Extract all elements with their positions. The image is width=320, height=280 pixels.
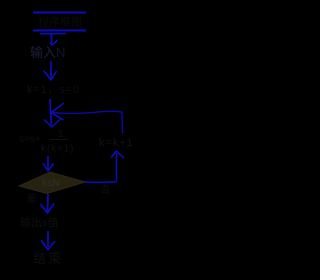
wire decision to output: [47, 194, 50, 211]
arrowhead into end: [41, 241, 55, 250]
svg-text:k=k+1: k=k+1: [99, 137, 133, 149]
input node text 输入N: [30, 45, 65, 60]
formula fraction bar: [50, 139, 69, 141]
svg-text:是: 是: [27, 194, 36, 204]
label yes 是: [27, 194, 36, 204]
wire formula to decision: [47, 156, 49, 169]
svg-text:输出s值: 输出s值: [20, 215, 59, 229]
no-branch horizontal wire from decision: [84, 181, 117, 184]
wire init to junction: [50, 99, 52, 125]
svg-text:1: 1: [58, 129, 64, 140]
start terminator bottom border: [33, 30, 86, 32]
wire output to end: [47, 231, 49, 247]
loopback horizontal wire: [52, 111, 122, 113]
formula prefix text s=s+: [19, 134, 41, 145]
svg-text:否: 否: [100, 184, 110, 196]
arrowhead into output: [41, 204, 55, 214]
increment node text k=k+1: [99, 137, 133, 149]
svg-text:程序框图: 程序框图: [38, 15, 82, 29]
wire start to input: [51, 34, 53, 44]
label no 否: [100, 184, 110, 196]
loopback vertical wire: [121, 112, 124, 133]
arrowhead into increment: [111, 151, 124, 158]
formula fraction denominator k(k+1): [41, 143, 74, 155]
arrowhead into input: [50, 40, 57, 45]
wire input to init: [50, 61, 52, 78]
connector stub line under start terminator: [40, 33, 66, 35]
arrowhead into formula: [44, 119, 61, 128]
no-branch vertical wire up to increment: [116, 153, 118, 182]
output node text 输出s值: [20, 215, 59, 229]
start terminator title text: [38, 15, 82, 29]
svg-text:结束: 结束: [33, 251, 63, 266]
arrowhead into decision: [43, 163, 54, 171]
arrowhead into init: [44, 71, 57, 81]
svg-text:输入N: 输入N: [30, 45, 65, 60]
loopback arrowhead pointing left at junction: [51, 103, 64, 120]
decision diamond: [19, 172, 85, 194]
svg-text:k(k+1): k(k+1): [41, 143, 74, 155]
init node text k=1 s=0: [27, 84, 80, 96]
start terminator top border: [33, 12, 86, 14]
svg-text:k=1，s=0: k=1，s=0: [27, 84, 80, 96]
formula fraction numerator 1: [58, 129, 64, 140]
svg-text:k≤N: k≤N: [42, 178, 60, 189]
svg-text:s=s+: s=s+: [19, 134, 41, 145]
decision condition text k≤N: [42, 178, 60, 189]
end node text 结束: [33, 251, 63, 266]
